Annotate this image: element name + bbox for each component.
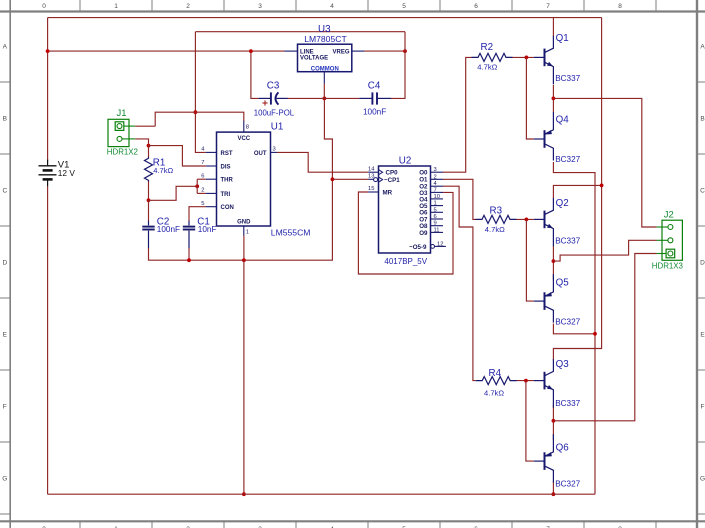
svg-text:CP0: CP0 (386, 170, 399, 177)
svg-text:DIS: DIS (221, 164, 231, 170)
wire J1 pin2 to R1 top and DIS (135, 139, 148, 146)
svg-text:13: 13 (368, 174, 374, 180)
svg-text:U2: U2 (399, 155, 412, 166)
node junction U1 GND ground rail (242, 258, 246, 262)
transistor Q1 (534, 36, 554, 85)
wire battery bottom to bottom rail (47, 186, 49, 494)
resistor R3 (476, 215, 517, 223)
wire Q3 emitter to output node 3 (552, 405, 554, 421)
svg-text:5: 5 (434, 207, 437, 213)
svg-text:3: 3 (434, 167, 437, 173)
svg-text:Q5: Q5 (556, 277, 570, 288)
svg-text:7: 7 (434, 187, 437, 193)
wire base node down to Q4 base (526, 57, 533, 139)
svg-text:VREG: VREG (332, 49, 349, 55)
svg-text:CON: CON (221, 205, 234, 211)
svg-text:GND: GND (237, 219, 251, 225)
op-amp U1 LM555CM body (217, 132, 271, 226)
wire C3 positive to 12V feed (251, 51, 259, 98)
svg-text:BC337: BC337 (555, 399, 580, 408)
svg-text:5: 5 (201, 201, 204, 207)
wire U2 O0 to R2 (443, 57, 472, 172)
svg-text:6: 6 (434, 214, 437, 220)
wire +5V branch to J1 pin1 and U1 VCC (155, 112, 244, 126)
node junction right rail Q2 collector (600, 184, 604, 188)
wire to U1 THR pin (197, 178, 206, 180)
resistor R4 (476, 377, 517, 385)
wire to U1 TRI pin (197, 192, 206, 194)
wire U1 GND pin to ground rail (243, 236, 245, 261)
capacitor C3 polarized (259, 92, 288, 105)
resistor R2 (472, 53, 513, 61)
wire junction to THR TRI bracket (149, 186, 198, 200)
wire R2 right to Q1 base node (513, 56, 534, 58)
svg-text:100nF: 100nF (363, 108, 386, 117)
svg-text:100uF-POL: 100uF-POL (254, 108, 295, 117)
svg-text:A: A (700, 43, 705, 50)
wire U2 O1 to R3 (443, 179, 476, 219)
svg-text:VOLTAGE: VOLTAGE (300, 55, 328, 61)
wire U2 O3 to MR reset loop (358, 192, 453, 274)
svg-text:BC327: BC327 (555, 155, 580, 164)
svg-text:HDR1X3: HDR1X3 (652, 262, 684, 271)
svg-text:F: F (3, 403, 7, 410)
svg-text:B: B (3, 115, 7, 122)
node junction J1 pin2 R1 DIS (147, 144, 151, 148)
wire to U1 DIS pin (149, 146, 206, 166)
svg-text:G: G (2, 475, 7, 482)
wire +12V battery top to rail (47, 18, 49, 161)
wire U1 OUT to U2 CP0 clock (277, 152, 368, 172)
node junction ground C3 C4 COMMON (323, 97, 327, 101)
svg-text:R4: R4 (489, 368, 502, 379)
svg-text:2: 2 (201, 188, 204, 194)
svg-text:R3: R3 (490, 206, 503, 217)
node junction output 2 (552, 259, 556, 263)
svg-text:3: 3 (258, 3, 262, 10)
wire base node down to Q6 base (526, 381, 534, 462)
svg-text:F: F (701, 403, 705, 410)
svg-text:U1: U1 (271, 121, 284, 132)
svg-text:1: 1 (114, 3, 118, 10)
svg-text:C: C (700, 187, 705, 194)
svg-text:~CP1: ~CP1 (384, 177, 400, 184)
svg-text:O0: O0 (419, 170, 428, 177)
svg-text:LM7805CT: LM7805CT (304, 34, 347, 44)
svg-text:MR: MR (383, 190, 393, 197)
svg-text:11: 11 (434, 227, 440, 233)
svg-text:0: 0 (42, 3, 46, 10)
svg-text:4.7kΩ: 4.7kΩ (153, 166, 173, 175)
wire ground to U2 ~CP1 pin (332, 178, 368, 180)
svg-text:OUT: OUT (254, 151, 267, 157)
wire ground rail mid C2 C1 GND (149, 98, 333, 260)
svg-text:6: 6 (201, 173, 204, 179)
node junction R2 Q1 Q4 base (525, 56, 529, 60)
svg-text:~O5-9: ~O5-9 (409, 244, 427, 251)
wire bottom ground rail (48, 493, 595, 495)
svg-text:THR: THR (221, 178, 234, 184)
svg-text:8: 8 (246, 124, 249, 130)
node junction output 3 (552, 419, 556, 423)
transistor Q3 (534, 359, 554, 408)
svg-text:Q4: Q4 (556, 115, 570, 126)
wire Q5 emitter to output node 2 (552, 261, 554, 279)
U2 left pin stubs CP0 CP1 MR (368, 170, 382, 192)
resistor R1 (145, 157, 153, 182)
node junction battery 12V branch (46, 49, 50, 53)
svg-text:Q3: Q3 (556, 359, 570, 370)
svg-text:R2: R2 (481, 42, 494, 53)
wire ground node to C4 left plate (324, 97, 359, 99)
wire THR TRI vertical tie (196, 179, 198, 193)
node junction +5V at C4 (403, 49, 407, 53)
svg-text:100nF: 100nF (157, 225, 180, 234)
svg-text:1: 1 (434, 201, 437, 207)
node junction +5V to VCC branch (194, 110, 198, 114)
capacitor C1 (183, 221, 195, 248)
svg-text:BC337: BC337 (555, 74, 580, 83)
wire output node 1 to J2 pin1 (553, 98, 656, 227)
capacitor C2 (142, 221, 154, 248)
wire Q4 collector to ground drop (553, 162, 595, 494)
svg-text:C: C (2, 187, 7, 194)
svg-text:15: 15 (368, 186, 374, 192)
svg-text:TRI: TRI (221, 192, 231, 198)
svg-text:12 V: 12 V (58, 168, 76, 178)
svg-text:B: B (700, 115, 704, 122)
wire Q2 collector to right rail (553, 185, 601, 198)
wire +12V right rail down to Q3 collector (553, 18, 601, 360)
svg-text:HDR1X2: HDR1X2 (107, 148, 138, 157)
wire Q6 collector to bottom rail (552, 482, 554, 495)
U2 right pin stubs O0-O9 (431, 172, 446, 248)
svg-text:4: 4 (330, 3, 334, 10)
svg-text:VCC: VCC (237, 136, 250, 142)
node junction R4 Q3 Q6 base (524, 379, 528, 383)
wire Q2 emitter to output node 2 (552, 246, 554, 261)
svg-text:3: 3 (273, 147, 276, 153)
svg-text:4.7kΩ: 4.7kΩ (484, 388, 504, 397)
U2 pin names (383, 170, 429, 251)
wire C1 bottom to ground rail (188, 248, 190, 260)
svg-text:9: 9 (434, 221, 437, 227)
node junction R3 Q2 Q5 base (525, 218, 529, 222)
wire R1 bottom lead to junction (148, 181, 150, 201)
wire J1 pin1 to +5V (135, 125, 155, 127)
svg-text:Q6: Q6 (556, 443, 570, 454)
node junction C1 ground (187, 258, 191, 262)
svg-text:1: 1 (246, 229, 249, 235)
svg-text:4.7kΩ: 4.7kΩ (477, 63, 497, 72)
wire output node 3 to J2 pin3 (553, 254, 656, 421)
wire Q4 emitter to output node 1 (552, 98, 554, 112)
svg-text:D: D (2, 259, 7, 266)
svg-text:12: 12 (437, 241, 443, 247)
svg-text:COMMON: COMMON (311, 66, 339, 72)
svg-text:7: 7 (201, 160, 204, 166)
wire +12V top rail (48, 17, 602, 19)
svg-text:RST: RST (221, 151, 233, 157)
svg-text:2: 2 (186, 3, 190, 10)
wire +5V top run (195, 31, 405, 33)
wire U3 COMMON to ground node (323, 84, 325, 99)
svg-text:E: E (700, 331, 705, 338)
wire ground rail down to bottom rail (243, 260, 245, 494)
svg-text:E: E (3, 331, 8, 338)
battery V1 (39, 160, 57, 187)
svg-text:7: 7 (546, 3, 550, 10)
U1 pin stubs (206, 121, 277, 236)
connector J1 HDR1X2 (108, 119, 135, 146)
wire output node 2 to J2 pin2 (553, 240, 656, 261)
svg-text:BC327: BC327 (555, 479, 580, 488)
wire R1 top lead (148, 146, 150, 158)
svg-text:14: 14 (368, 166, 375, 172)
wire R1 junction down to C2 (148, 200, 150, 221)
svg-text:LM555CM: LM555CM (271, 228, 311, 238)
U3 pin stubs (285, 51, 365, 84)
transistor Q4 (534, 112, 554, 161)
node junction ground to CP1 (331, 177, 335, 181)
node junction Q5 collector ground drop (593, 332, 597, 336)
node junction ground drop bottom rail (242, 492, 246, 496)
wire U3 VREG output to +5V node (364, 50, 405, 52)
svg-text:2: 2 (434, 174, 437, 180)
transistor Q6 (534, 434, 554, 483)
transistor Q5 (534, 274, 554, 323)
svg-text:BC337: BC337 (555, 236, 580, 245)
svg-text:4.7kΩ: 4.7kΩ (485, 225, 505, 234)
wire +5V C4 right plate (391, 32, 405, 99)
node junction THR TRI tie (195, 184, 199, 188)
svg-text:8: 8 (618, 3, 622, 10)
wire R4 right to Q3 base node (517, 380, 534, 382)
label V1 12V (58, 159, 76, 178)
svg-text:10: 10 (434, 194, 440, 200)
wire Q1 emitter to output node 1 (552, 85, 554, 98)
node junction 12V C3 branch (249, 49, 253, 53)
svg-text:D: D (700, 259, 705, 266)
wire +5V down to U1 RST (195, 32, 206, 153)
svg-text:A: A (3, 43, 8, 50)
counter U2 4017BP_5V body (379, 166, 431, 253)
wire Q6 emitter to output node 3 (552, 421, 554, 440)
U1 pin names (221, 136, 267, 225)
svg-text:4017BP_5V: 4017BP_5V (384, 257, 427, 266)
transistor Q2 (534, 198, 554, 247)
svg-text:O9: O9 (419, 230, 428, 237)
svg-text:10nF: 10nF (198, 225, 217, 234)
wire Q5 collector to ground drop (553, 324, 595, 334)
svg-text:J1: J1 (117, 108, 127, 119)
wire U2 O2 to R4 (443, 186, 476, 380)
svg-text:Q1: Q1 (556, 33, 569, 44)
node junction output 1 (552, 97, 556, 101)
svg-text:5: 5 (402, 3, 406, 10)
regulator U3 LM7805CT body (298, 44, 352, 71)
node junction R1 bottom THR TRI C2 (147, 198, 151, 202)
wire C3 negative to ground node (288, 97, 325, 99)
U3 pin names (300, 49, 350, 72)
wire U1 CON to C1 (189, 207, 206, 221)
svg-text:C4: C4 (368, 80, 381, 91)
wire Q1 collector to top rail (552, 18, 554, 37)
svg-text:6: 6 (474, 3, 478, 10)
wire base node down to Q5 base (526, 219, 533, 301)
wire R3 right to Q2 base node (517, 218, 534, 220)
svg-text:C3: C3 (267, 80, 280, 91)
U2 pin numbers (368, 166, 443, 247)
svg-text:G: G (700, 475, 705, 482)
node junction Q6 collector bottom rail (552, 492, 556, 496)
U1 pin numbers (201, 124, 275, 235)
svg-text:BC327: BC327 (555, 317, 580, 326)
connector J2 HDR1X3 (657, 220, 683, 260)
wire 12V feed to U3 input (48, 50, 285, 52)
svg-text:J2: J2 (664, 210, 674, 221)
capacitor C4 (359, 92, 391, 104)
svg-text:Q2: Q2 (556, 198, 569, 209)
